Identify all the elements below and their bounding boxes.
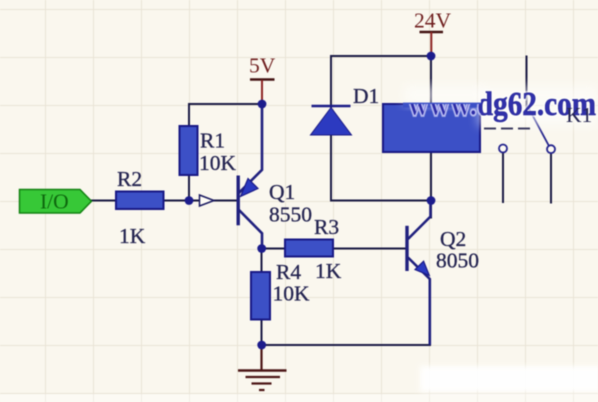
svg-text:5V: 5V bbox=[249, 54, 276, 78]
svg-text:8550: 8550 bbox=[269, 203, 312, 227]
svg-text:K1: K1 bbox=[566, 103, 592, 127]
svg-text:R2: R2 bbox=[117, 167, 142, 191]
svg-text:Q1: Q1 bbox=[269, 180, 295, 204]
svg-text:8050: 8050 bbox=[436, 249, 479, 273]
svg-text:R1: R1 bbox=[200, 129, 225, 153]
svg-text:I/O: I/O bbox=[40, 190, 69, 214]
svg-text:1K: 1K bbox=[119, 224, 146, 248]
svg-text:10K: 10K bbox=[273, 282, 311, 306]
svg-text:D1: D1 bbox=[353, 84, 379, 108]
svg-text:Q2: Q2 bbox=[440, 227, 466, 251]
svg-text:R4: R4 bbox=[276, 260, 301, 284]
svg-text:10K: 10K bbox=[199, 151, 237, 175]
svg-text:1K: 1K bbox=[315, 259, 342, 283]
svg-text:R3: R3 bbox=[314, 215, 339, 239]
svg-text:24V: 24V bbox=[414, 9, 452, 33]
